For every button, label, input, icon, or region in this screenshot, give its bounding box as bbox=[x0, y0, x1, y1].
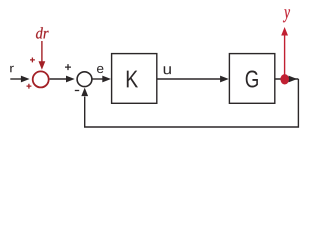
wire S1 to S2 bbox=[50, 78, 67, 80]
K label bbox=[127, 71, 138, 88]
arrowhead at feedback corner bbox=[289, 76, 298, 83]
arrowhead feedback into S2 bbox=[81, 88, 88, 97]
arrowhead into G bbox=[220, 76, 229, 83]
wire K to G bbox=[157, 78, 221, 80]
wire S2 to block K bbox=[92, 78, 103, 80]
summing junction S1 (red) bbox=[33, 71, 49, 87]
node y label bbox=[283, 9, 290, 22]
summing junction S2 (black) bbox=[77, 72, 92, 87]
G label bbox=[246, 71, 258, 88]
plus sign for S2 input bbox=[65, 64, 71, 70]
arrowhead dr into S1 bbox=[39, 61, 46, 70]
plus sign for dr input bbox=[30, 58, 35, 63]
node e label bbox=[97, 66, 103, 73]
block K (controller) bbox=[112, 54, 157, 104]
node y pickoff dot bbox=[280, 74, 289, 84]
plus sign for r input bbox=[27, 84, 32, 89]
arrowhead y bbox=[281, 27, 288, 36]
block G (process) bbox=[229, 54, 274, 104]
disturbance dr label bbox=[36, 27, 43, 38]
wire G to feedback corner bbox=[275, 78, 299, 80]
arrowhead into summing junction S2 bbox=[66, 76, 75, 83]
minus sign for feedback input bbox=[75, 90, 79, 92]
arrowhead into K bbox=[102, 76, 111, 83]
wire y output arrow (red, up) bbox=[284, 35, 286, 80]
node r label bbox=[10, 66, 14, 73]
arrowhead into summing junction S1 bbox=[21, 76, 30, 83]
wire r input bbox=[10, 78, 22, 80]
node u label bbox=[164, 66, 171, 74]
wire feedback path bbox=[85, 79, 299, 127]
wire dr arrow (red, down into S1) bbox=[41, 41, 43, 63]
